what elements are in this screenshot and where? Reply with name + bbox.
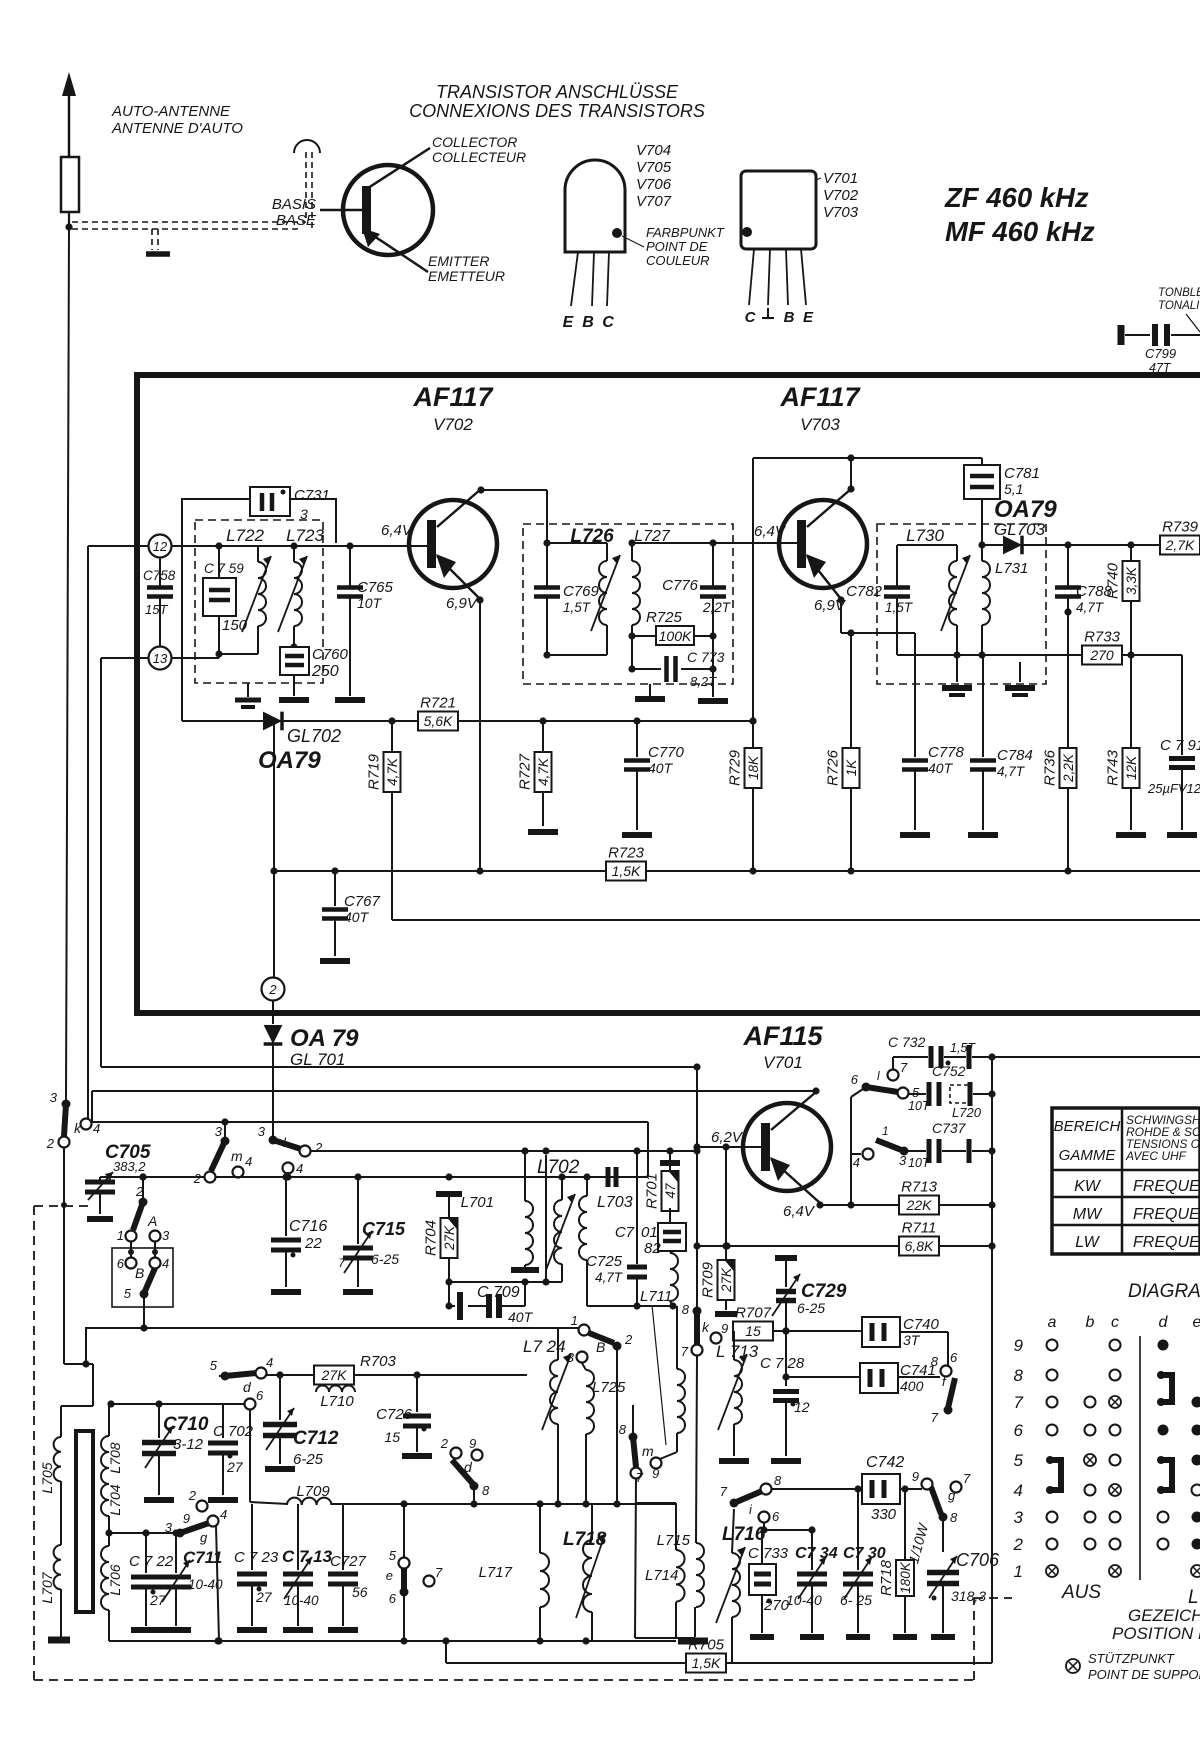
svg-text:4,7T: 4,7T xyxy=(997,764,1026,779)
label 6.2V xyxy=(711,1129,744,1146)
wire bus A xyxy=(101,1063,701,1070)
switch g1 xyxy=(165,1488,227,1545)
wire mixer line xyxy=(266,1371,560,1378)
svg-text:47: 47 xyxy=(663,1183,678,1199)
svg-text:L710: L710 xyxy=(320,1393,354,1410)
svg-text:R726: R726 xyxy=(825,749,842,786)
svg-text:9: 9 xyxy=(183,1511,190,1526)
svg-text:a: a xyxy=(1048,1314,1057,1331)
svg-text:3T: 3T xyxy=(903,1332,921,1348)
svg-text:R743: R743 xyxy=(1105,749,1122,786)
switch AB wires xyxy=(128,1242,158,1258)
svg-text:L709: L709 xyxy=(296,1483,330,1500)
svg-text:AF117: AF117 xyxy=(412,382,494,412)
svg-text:10-40: 10-40 xyxy=(188,1577,223,1592)
wire L726 bottom xyxy=(543,543,607,659)
svg-text:FREQUE: FREQUE xyxy=(1133,1178,1200,1195)
svg-text:C725: C725 xyxy=(586,1253,623,1270)
label E B C xyxy=(563,314,615,331)
svg-text:C 702: C 702 xyxy=(213,1423,254,1440)
svg-text:g: g xyxy=(200,1530,208,1545)
wire R729 branch xyxy=(749,458,756,748)
inductor L703 xyxy=(579,1177,587,1306)
diagram separator xyxy=(1139,1336,1141,1580)
inductor L724 xyxy=(542,1328,571,1504)
svg-text:e: e xyxy=(386,1568,393,1583)
inductor L718 xyxy=(576,1504,605,1641)
switch i xyxy=(720,1473,782,1524)
label V704 V705 V706 V707 xyxy=(636,142,672,210)
capacitor C788 xyxy=(1055,545,1113,748)
svg-text:12K: 12K xyxy=(1124,755,1139,780)
label L717 xyxy=(479,1564,513,1581)
capacitor C778 xyxy=(902,633,965,830)
dashed box L730 xyxy=(877,524,1046,684)
resistor R723 xyxy=(606,845,646,881)
svg-text:AF115: AF115 xyxy=(742,1021,823,1051)
svg-text:COLLECTOR: COLLECTOR xyxy=(432,134,517,150)
capacitor C710 xyxy=(142,1404,209,1495)
svg-text:C752: C752 xyxy=(932,1063,966,1079)
label L714 xyxy=(645,1567,678,1584)
capacitor C727 xyxy=(328,1504,368,1626)
svg-text:9: 9 xyxy=(912,1469,919,1484)
svg-text:27: 27 xyxy=(226,1459,244,1475)
svg-text:330: 330 xyxy=(871,1506,897,1523)
svg-text:5,1: 5,1 xyxy=(1004,481,1023,497)
inductor L701 xyxy=(525,1151,533,1267)
capacitor C701 xyxy=(615,1223,686,1257)
wire osc mid xyxy=(449,1278,562,1285)
inductor L716 xyxy=(716,1509,745,1663)
transformer can L722/L723 box xyxy=(182,499,336,721)
svg-text:MF 460 kHz: MF 460 kHz xyxy=(945,216,1095,247)
wire node2 down xyxy=(272,1001,274,1024)
svg-text:AUTO-ANTENNE: AUTO-ANTENNE xyxy=(111,103,231,120)
wire osc line xyxy=(310,1147,701,1154)
label L713 xyxy=(716,1342,759,1361)
switch d1 xyxy=(210,1355,273,1395)
capacitor C741 xyxy=(860,1362,936,1394)
svg-text:d: d xyxy=(1159,1314,1169,1331)
diagram row 8 xyxy=(1047,1370,1121,1381)
svg-text:8: 8 xyxy=(931,1354,939,1369)
inductor L707 xyxy=(54,1545,61,1589)
ground L715 xyxy=(635,1638,708,1641)
svg-text:R721: R721 xyxy=(420,695,456,712)
svg-text:L701: L701 xyxy=(461,1194,494,1211)
svg-text:c: c xyxy=(1111,1314,1119,1331)
switch d2 xyxy=(440,1436,490,1498)
wire L711b to m2 xyxy=(660,1452,677,1459)
wire osc line2 xyxy=(100,1173,648,1180)
svg-text:27K: 27K xyxy=(442,1225,457,1251)
capacitor C740 xyxy=(862,1316,940,1348)
antenna socket xyxy=(294,140,320,153)
svg-text:L708: L708 xyxy=(107,1442,123,1473)
capacitor osc coupling xyxy=(608,1167,616,1187)
wire osc right vert xyxy=(647,1122,649,1177)
dashed border bottom xyxy=(34,1598,1012,1680)
label AUTO-ANTENNE xyxy=(111,103,243,137)
svg-text:4,7T: 4,7T xyxy=(595,1270,624,1285)
svg-text:L704: L704 xyxy=(107,1484,123,1515)
svg-text:C767: C767 xyxy=(344,893,381,910)
inductor L709 xyxy=(287,1483,331,1505)
svg-text:6-25: 6-25 xyxy=(797,1300,825,1316)
svg-text:8: 8 xyxy=(482,1483,490,1498)
capacitor C716 xyxy=(271,1177,327,1287)
svg-text:15T: 15T xyxy=(145,602,168,617)
svg-text:4: 4 xyxy=(296,1161,303,1176)
inductor L714 xyxy=(635,1503,685,1638)
svg-text:1: 1 xyxy=(117,1228,124,1243)
svg-text:7: 7 xyxy=(681,1344,689,1359)
diagram row 9 xyxy=(1047,1340,1169,1351)
resistor R705 xyxy=(686,1637,726,1673)
svg-text:270: 270 xyxy=(1089,647,1114,663)
label OA79 GL703 xyxy=(994,496,1057,539)
inductor L722 coil xyxy=(242,556,271,632)
capacitor C737 xyxy=(853,1120,992,1170)
svg-text:3: 3 xyxy=(899,1153,907,1168)
svg-text:C711: C711 xyxy=(183,1548,222,1567)
ground C716 xyxy=(271,1289,301,1295)
svg-text:27K: 27K xyxy=(719,1267,734,1293)
svg-text:C727: C727 xyxy=(330,1553,367,1570)
wire i pin6 xyxy=(760,1523,815,1534)
capacitor C773 xyxy=(632,649,725,689)
svg-text:B: B xyxy=(582,314,594,331)
svg-text:C 733: C 733 xyxy=(748,1545,789,1562)
capacitor C759 xyxy=(203,546,248,654)
label L725 xyxy=(592,1379,626,1396)
svg-text:V703: V703 xyxy=(823,204,859,221)
svg-text:6: 6 xyxy=(1014,1421,1024,1440)
ground C726 xyxy=(402,1453,432,1459)
inductor L723 coil xyxy=(278,556,307,632)
wire R721 to V703 xyxy=(457,717,757,724)
capacitor C784 xyxy=(970,655,1033,830)
svg-text:OA 79: OA 79 xyxy=(290,1025,359,1052)
diagram bracket d 5-4 xyxy=(1157,1456,1172,1494)
diagram row 2 xyxy=(1047,1539,1200,1550)
capacitor C799 xyxy=(1121,324,1200,375)
wire L705-L707 xyxy=(60,1481,62,1545)
svg-text:25µFV12: 25µFV12 xyxy=(1147,781,1200,796)
svg-text:L720: L720 xyxy=(952,1105,982,1120)
wire antenna to L705 xyxy=(61,1329,93,1406)
svg-text:TONALIT: TONALIT xyxy=(1158,300,1200,312)
capacitor C711 xyxy=(161,1533,223,1626)
svg-text:C726: C726 xyxy=(376,1406,413,1423)
table header right xyxy=(1125,1113,1200,1163)
wire L731 xyxy=(981,545,983,655)
svg-text:R733: R733 xyxy=(1084,629,1121,646)
inductor L710 xyxy=(316,1386,355,1411)
capacitor C723 xyxy=(234,1504,279,1626)
resistor R740 xyxy=(1105,545,1140,659)
svg-text:C706: C706 xyxy=(956,1550,1000,1570)
svg-text:C737: C737 xyxy=(932,1120,967,1136)
svg-text:C: C xyxy=(602,314,614,331)
svg-text:R709: R709 xyxy=(700,1261,717,1298)
diagram row 1 xyxy=(1046,1565,1200,1577)
wire L707 gnd xyxy=(60,1589,62,1637)
label L722 xyxy=(226,526,264,545)
svg-text:C 773: C 773 xyxy=(687,649,725,665)
svg-text:MW: MW xyxy=(1073,1206,1103,1223)
ground R727 xyxy=(528,829,558,835)
label TONBLENDE xyxy=(1158,287,1200,332)
svg-text:2,2T: 2,2T xyxy=(702,600,732,615)
svg-text:POINT DE: POINT DE xyxy=(646,239,708,254)
svg-text:40T: 40T xyxy=(928,760,954,776)
resistor R719 xyxy=(366,721,401,920)
svg-text:1,5T: 1,5T xyxy=(950,1041,976,1055)
label L702 xyxy=(537,1157,580,1178)
capacitor C722 xyxy=(129,1533,174,1626)
wire band bus xyxy=(85,1324,584,1331)
svg-text:FREQUE.: FREQUE. xyxy=(1133,1234,1200,1251)
svg-text:100K: 100K xyxy=(659,628,692,644)
wire antenna feed xyxy=(65,223,72,1101)
wire AGC bus xyxy=(274,867,607,874)
svg-text:2: 2 xyxy=(1013,1535,1024,1554)
wire collector tap xyxy=(847,1087,866,1209)
svg-text:L707: L707 xyxy=(39,1571,55,1603)
svg-text:BASE: BASE xyxy=(276,212,317,229)
IF strip border box xyxy=(134,375,1200,1013)
resistor R713 xyxy=(899,1179,996,1215)
svg-text:40T: 40T xyxy=(648,760,674,776)
wire L702 vert xyxy=(542,1155,549,1286)
label 6.4V V701 xyxy=(783,1203,816,1220)
svg-text:4: 4 xyxy=(853,1155,860,1170)
svg-text:C715: C715 xyxy=(362,1219,406,1239)
label V701 V702 V703 xyxy=(816,170,859,221)
wire V701 base feed xyxy=(693,1067,761,1311)
svg-text:ANTENNE D'AUTO: ANTENNE D'AUTO xyxy=(111,120,243,137)
svg-text:DIAGRAMM: DIAGRAMM xyxy=(1128,1281,1200,1302)
capacitor C781 xyxy=(964,458,1040,545)
svg-text:C770: C770 xyxy=(648,744,685,761)
svg-text:L716: L716 xyxy=(722,1524,766,1545)
antenna xyxy=(61,72,79,227)
svg-text:318,3: 318,3 xyxy=(951,1588,986,1604)
label L715 xyxy=(657,1532,691,1549)
svg-text:E: E xyxy=(563,314,575,331)
inductor L715 xyxy=(695,1543,704,1637)
resistor R725 xyxy=(632,609,717,645)
wire osc top bus xyxy=(109,1400,202,1407)
svg-text:R723: R723 xyxy=(608,845,645,862)
switch g2 xyxy=(912,1469,971,1525)
svg-text:FARBPUNKT: FARBPUNKT xyxy=(646,225,725,240)
wire l pin4 xyxy=(287,1172,289,1177)
wire k2 down xyxy=(696,1356,697,1543)
svg-text:R727: R727 xyxy=(517,753,534,790)
svg-text:C778: C778 xyxy=(928,744,965,761)
svg-text:6- 25: 6- 25 xyxy=(840,1592,872,1608)
capacitor C713 xyxy=(282,1504,333,1626)
svg-text:CONNEXIONS DES TRANSISTORS: CONNEXIONS DES TRANSISTORS xyxy=(409,101,705,121)
ground L701 xyxy=(511,1267,539,1273)
label ZF 460 kHz xyxy=(944,182,1095,247)
svg-text:400: 400 xyxy=(900,1378,924,1394)
svg-text:C 7 22: C 7 22 xyxy=(129,1553,174,1570)
wire C705 feed xyxy=(91,1091,93,1122)
wire k down xyxy=(61,1148,67,1364)
svg-text:L714: L714 xyxy=(645,1567,678,1584)
svg-text:2: 2 xyxy=(188,1488,197,1503)
table header text xyxy=(1054,1118,1121,1164)
svg-text:12: 12 xyxy=(794,1399,810,1415)
wire V702 emitter xyxy=(476,596,483,871)
ground L731 pad xyxy=(1005,662,1035,695)
svg-text:27: 27 xyxy=(255,1589,273,1605)
svg-text:FREQUEI: FREQUEI xyxy=(1133,1206,1200,1223)
svg-text:C 7 91: C 7 91 xyxy=(1160,737,1200,754)
resistor R736 xyxy=(1042,748,1077,871)
resistor R709 xyxy=(700,1147,735,1310)
svg-text:250: 250 xyxy=(311,663,339,680)
capacitor C715 xyxy=(338,1177,406,1287)
svg-text:L702: L702 xyxy=(537,1157,580,1178)
svg-text:4: 4 xyxy=(245,1154,252,1169)
label TRANSISTOR ANSCHLUESSE xyxy=(409,82,705,121)
ground C760 xyxy=(279,697,309,703)
wire R705 line xyxy=(442,1637,992,1663)
svg-text:b: b xyxy=(1086,1314,1095,1331)
svg-text:COLLECTEUR: COLLECTEUR xyxy=(432,149,526,165)
svg-text:k: k xyxy=(702,1319,710,1335)
svg-text:C760: C760 xyxy=(312,646,349,663)
svg-text:AF117: AF117 xyxy=(779,382,861,412)
svg-text:56: 56 xyxy=(352,1584,368,1600)
switch e xyxy=(386,1504,443,1641)
svg-text:GL703: GL703 xyxy=(994,520,1046,539)
wire x992 vertical xyxy=(988,1057,995,1663)
chassis bar C705 xyxy=(87,1216,113,1222)
svg-text:C731: C731 xyxy=(294,487,330,504)
svg-text:C7 30: C7 30 xyxy=(843,1545,886,1562)
svg-text:4,7K: 4,7K xyxy=(536,757,551,786)
resistor R733 xyxy=(1046,629,1182,665)
label GEZEICHNET xyxy=(1112,1606,1200,1643)
wire i line xyxy=(771,1485,862,1492)
svg-text:3: 3 xyxy=(258,1124,266,1139)
ground C776 xyxy=(698,698,728,704)
capacitor C729 xyxy=(772,1258,847,1335)
svg-text:L706: L706 xyxy=(107,1564,123,1595)
inductor L702 coil xyxy=(546,1177,575,1282)
resistor R707 xyxy=(733,1305,773,1341)
svg-text:KW: KW xyxy=(1074,1178,1102,1195)
resistor R711 xyxy=(899,1220,996,1256)
ground L705 chain xyxy=(48,1637,70,1644)
label L723 xyxy=(286,526,324,545)
svg-text:m: m xyxy=(231,1148,243,1164)
svg-text:2: 2 xyxy=(314,1140,323,1155)
svg-text:5: 5 xyxy=(912,1085,920,1100)
svg-text:V707: V707 xyxy=(636,193,672,210)
label L716 xyxy=(722,1524,766,1545)
wire L730 top xyxy=(897,544,957,546)
node 2 xyxy=(262,978,285,1001)
svg-text:R729: R729 xyxy=(727,749,744,786)
svg-text:22: 22 xyxy=(304,1235,322,1252)
svg-text:5,6K: 5,6K xyxy=(424,713,453,729)
resistor R718 xyxy=(878,1489,932,1633)
diagram row numbers xyxy=(1013,1336,1024,1581)
svg-text:TONBLE: TONBLE xyxy=(1158,287,1200,299)
svg-text:B: B xyxy=(784,309,795,326)
svg-text:GAMME: GAMME xyxy=(1059,1147,1117,1164)
svg-text:C 7 13: C 7 13 xyxy=(282,1547,333,1566)
ground C711 xyxy=(161,1627,191,1633)
svg-text:C: C xyxy=(745,309,757,326)
label GL702 xyxy=(287,726,341,746)
svg-text:2,2K: 2,2K xyxy=(1061,753,1076,783)
svg-text:01: 01 xyxy=(641,1224,658,1241)
transistor V703 xyxy=(779,489,867,599)
svg-text:10T: 10T xyxy=(908,1156,931,1170)
svg-text:8: 8 xyxy=(774,1473,782,1488)
label L705 xyxy=(39,1462,55,1493)
svg-text:4: 4 xyxy=(266,1355,273,1370)
wire V703 emitter xyxy=(837,596,915,636)
wire g1 pin4 xyxy=(215,1526,222,1645)
ground C712 xyxy=(265,1466,295,1472)
svg-text:8: 8 xyxy=(619,1422,627,1437)
ground C791 xyxy=(1167,832,1197,838)
wire g2 down xyxy=(942,1517,944,1552)
label L707 xyxy=(39,1571,55,1603)
switch A xyxy=(117,1173,170,1243)
svg-text:L 713: L 713 xyxy=(716,1342,759,1361)
svg-text:6: 6 xyxy=(117,1256,125,1271)
svg-text:COULEUR: COULEUR xyxy=(646,253,710,268)
wire mixer lower xyxy=(250,1500,676,1507)
svg-text:6-25: 6-25 xyxy=(371,1251,399,1267)
svg-text:R736: R736 xyxy=(1042,749,1059,786)
wire node13 left xyxy=(101,658,148,1067)
svg-text:GEZEICHN: GEZEICHN xyxy=(1128,1606,1200,1625)
legend package V704-V707 xyxy=(565,160,625,306)
svg-text:27K: 27K xyxy=(321,1367,348,1383)
svg-text:C 7 59: C 7 59 xyxy=(204,561,244,576)
label L730 xyxy=(906,526,944,545)
svg-text:C781: C781 xyxy=(1004,465,1040,482)
svg-text:R711: R711 xyxy=(902,1220,937,1237)
svg-text:1,5T: 1,5T xyxy=(885,600,914,615)
switch m2 xyxy=(619,1422,662,1485)
svg-text:7: 7 xyxy=(720,1484,728,1499)
capacitor C770 xyxy=(624,721,685,830)
capacitor C760 xyxy=(280,646,349,696)
switch B2 xyxy=(567,1313,633,1365)
resistor R701 xyxy=(644,1151,681,1223)
table row KW xyxy=(1074,1178,1200,1195)
svg-text:C769: C769 xyxy=(563,583,600,600)
svg-text:L711: L711 xyxy=(640,1288,672,1305)
capacitor C734 xyxy=(786,1530,838,1633)
resistor R726 xyxy=(825,633,860,871)
svg-text:6: 6 xyxy=(950,1350,958,1365)
inductor L731 coil xyxy=(982,561,990,625)
switch m xyxy=(193,1124,252,1186)
